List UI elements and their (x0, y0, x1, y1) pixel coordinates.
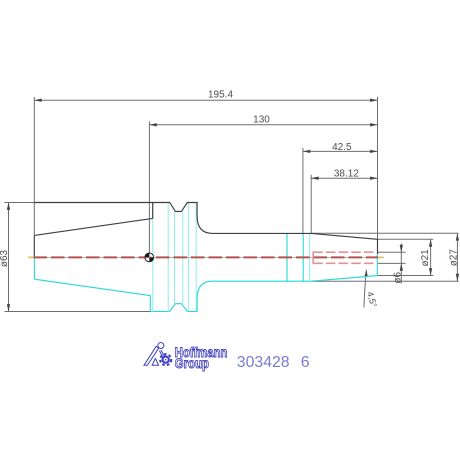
svg-text:195.4: 195.4 (208, 90, 233, 101)
svg-text:303428: 303428 (237, 354, 290, 371)
svg-text:ø21: ø21 (420, 249, 431, 267)
svg-text:4,5°: 4,5° (365, 291, 379, 309)
svg-text:42.5: 42.5 (332, 142, 352, 153)
svg-text:ø6: ø6 (393, 272, 404, 284)
svg-text:38.12: 38.12 (334, 169, 359, 180)
svg-text:ø63: ø63 (0, 249, 10, 267)
svg-text:Group: Group (175, 355, 209, 371)
svg-text:6: 6 (301, 354, 310, 371)
svg-text:ø27: ø27 (448, 249, 459, 267)
svg-text:130: 130 (253, 115, 270, 126)
